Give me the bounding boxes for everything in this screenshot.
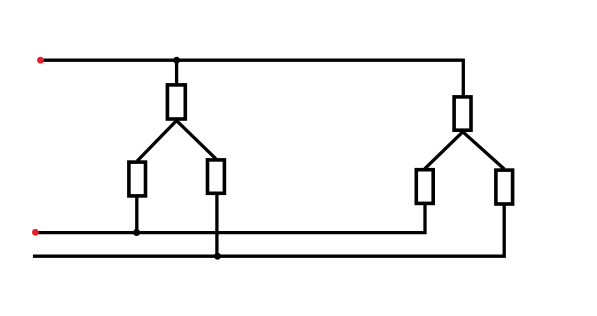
wire R1 top lead [175, 60, 178, 85]
wire diagonal R4 to R6 [463, 132, 504, 169]
wire R2 bottom lead [135, 196, 138, 233]
wire top bus [41, 59, 463, 62]
wire R3 bottom lead (crosses middle bus) [215, 194, 218, 256]
resistor R3 [208, 160, 225, 193]
resistor R6 [496, 170, 513, 204]
node junction on middle bus [133, 229, 140, 236]
resistor R5 [416, 170, 433, 204]
wire bottom bus [33, 204, 504, 256]
wire middle bus [37, 204, 425, 233]
wire diagonal R1 to R2 [137, 121, 176, 161]
wire diagonal R4 to R5 [425, 132, 463, 169]
resistor R4 [454, 97, 471, 130]
wire top-right drop to R4 [462, 59, 465, 97]
terminal A (red) top-left [37, 57, 44, 64]
node junction on bottom bus [214, 253, 221, 260]
resistor R1 [167, 85, 185, 119]
node junction on top bus [173, 57, 180, 64]
resistor R2 [129, 162, 146, 196]
terminal B (red) middle-left [32, 229, 39, 236]
wire diagonal R1 to R3 [177, 121, 216, 159]
